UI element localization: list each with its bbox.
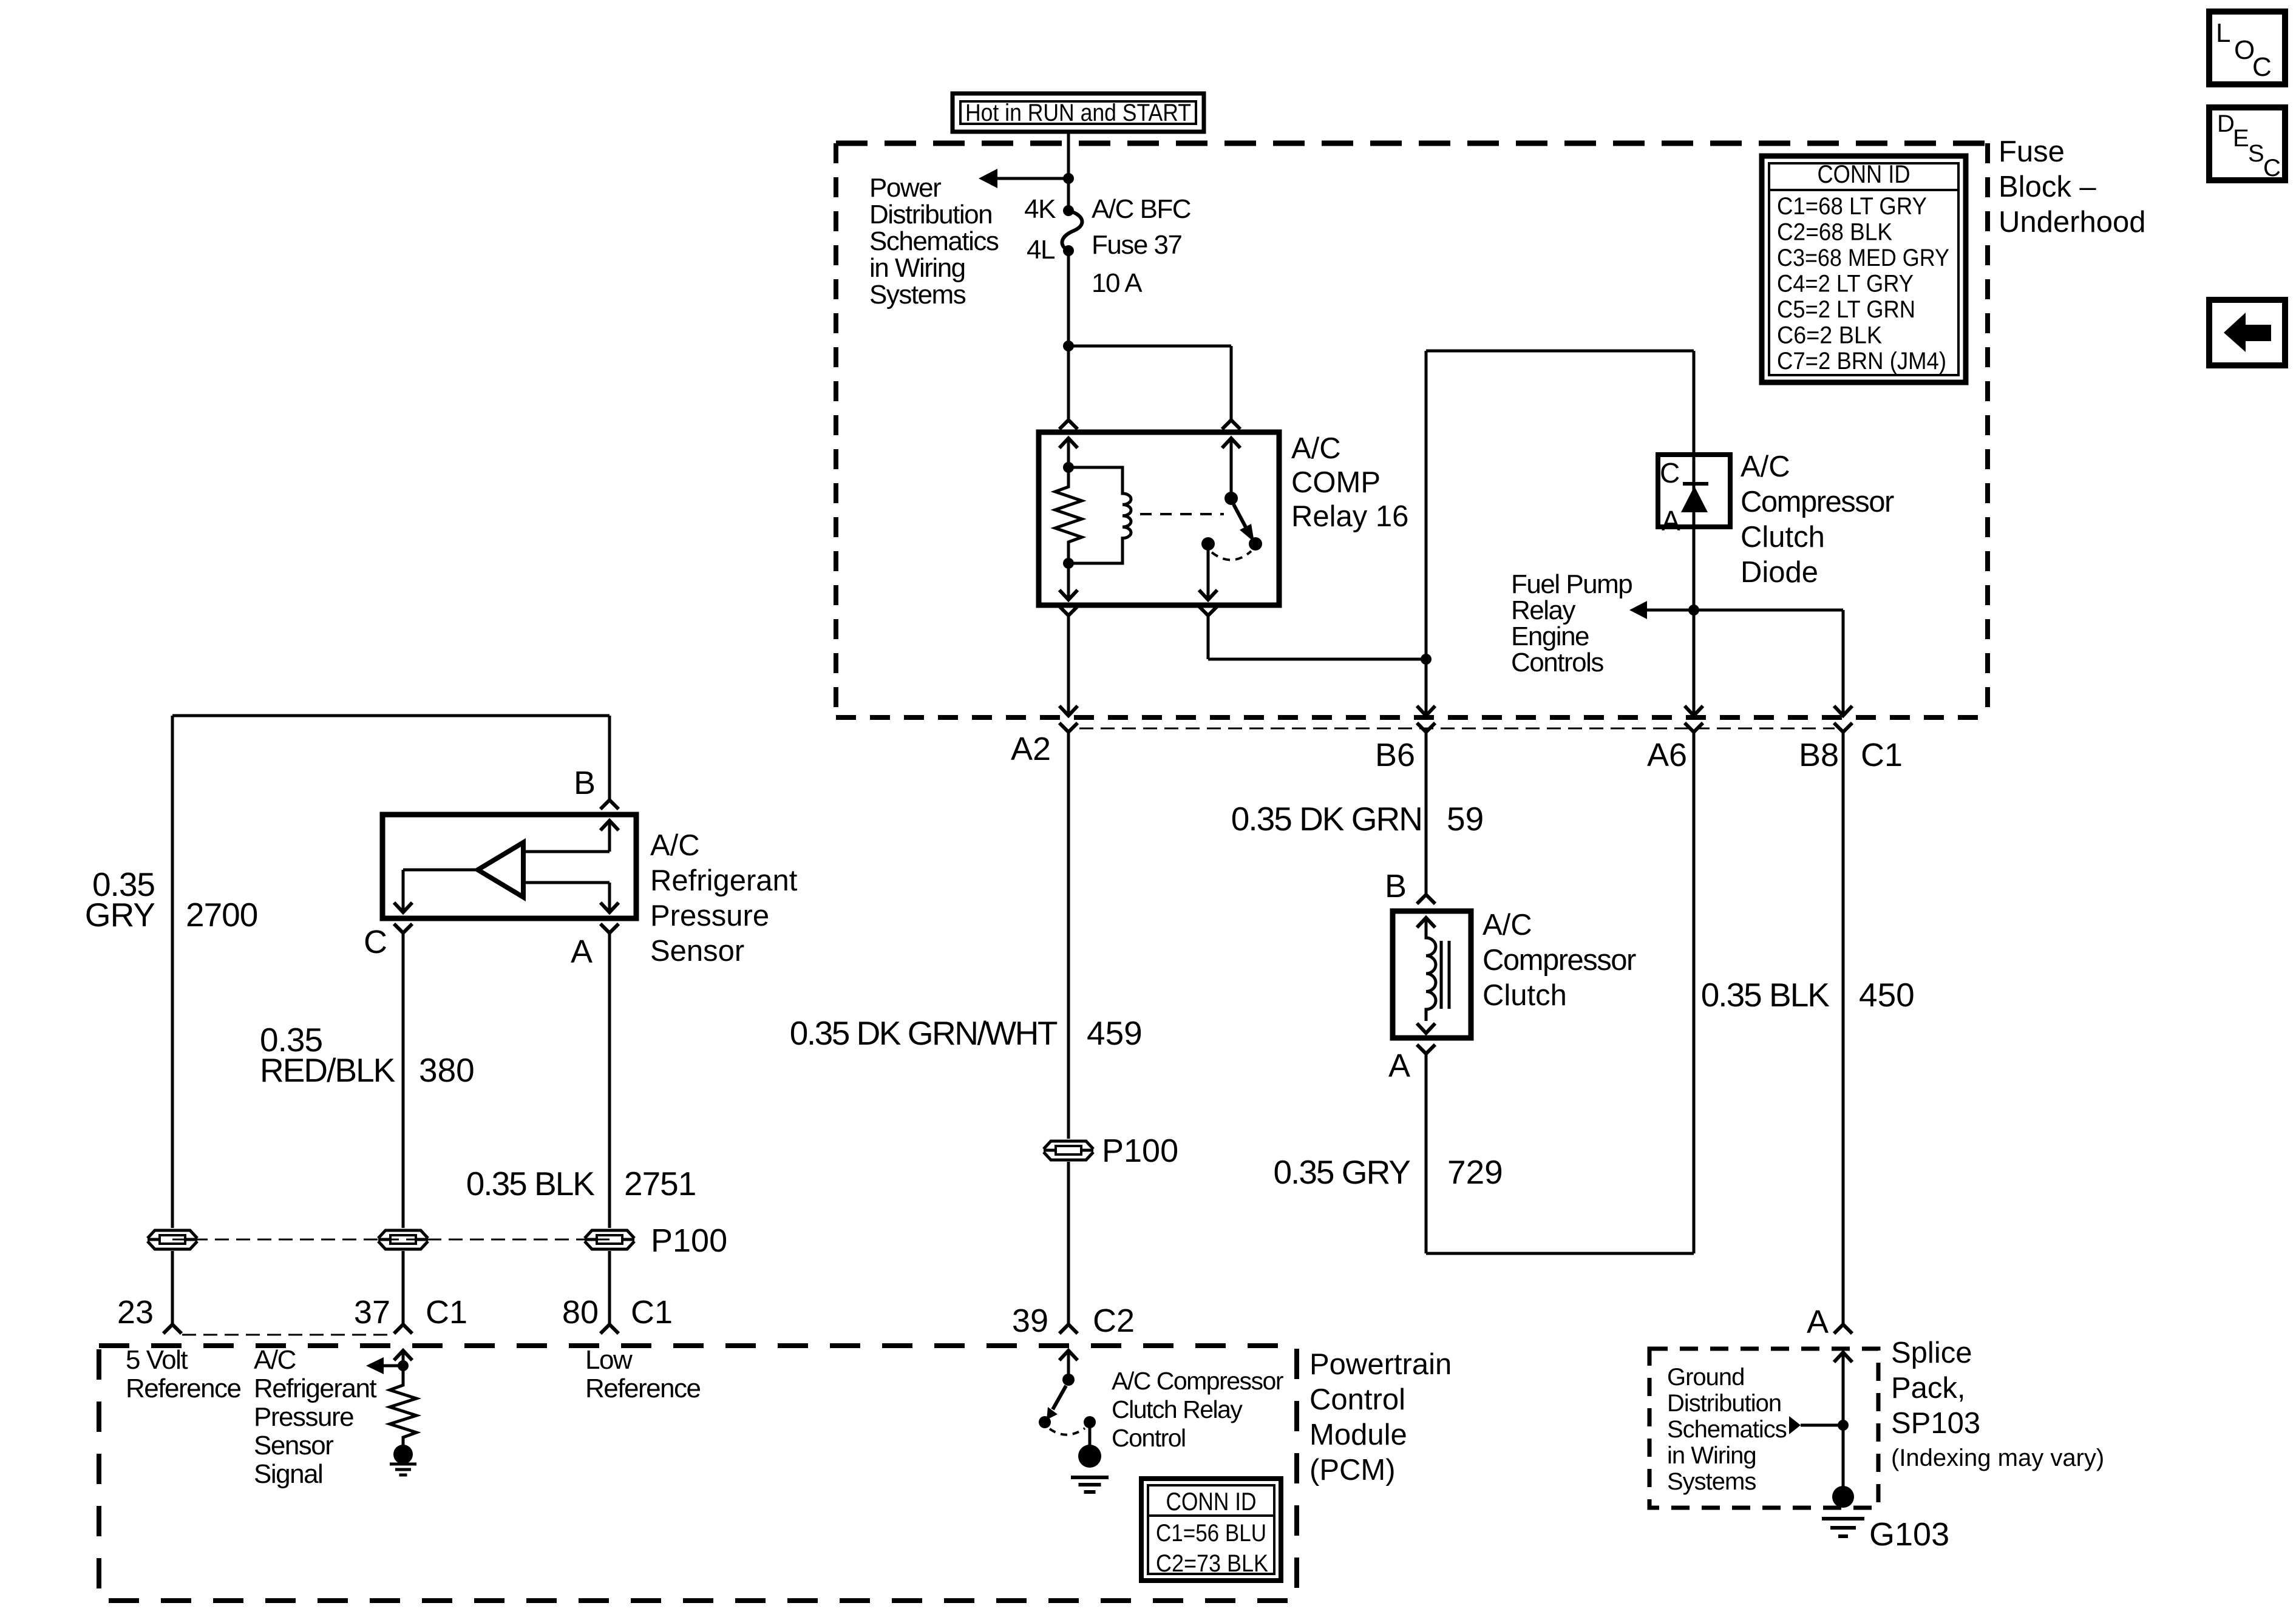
svg-text:0.35 DK GRN: 0.35 DK GRN xyxy=(1231,800,1422,838)
svg-text:C3=68 MED GRY: C3=68 MED GRY xyxy=(1777,245,1949,271)
svg-text:Relay 16: Relay 16 xyxy=(1291,500,1408,533)
svg-text:380: 380 xyxy=(419,1051,475,1089)
svg-text:A/C: A/C xyxy=(1483,909,1532,941)
splice pack entry arrow xyxy=(1834,1352,1852,1362)
wire junction to fuse xyxy=(1067,178,1070,211)
connector chevrons at relay top xyxy=(1059,420,1078,429)
svg-text:Pressure: Pressure xyxy=(254,1402,353,1432)
sensor B pin arrow xyxy=(600,821,619,830)
connector P100 (sensor signal) xyxy=(378,1230,428,1249)
svg-text:C2=73 BLK: C2=73 BLK xyxy=(1156,1550,1268,1577)
connector chevrons at relay bottom xyxy=(1059,606,1078,615)
svg-text:D: D xyxy=(2217,110,2235,137)
wire 5V reference top run xyxy=(172,714,610,717)
svg-text:A/C Compressor: A/C Compressor xyxy=(1112,1367,1283,1395)
svg-text:5 Volt: 5 Volt xyxy=(126,1345,188,1375)
node sensor signal junction xyxy=(398,1360,409,1371)
svg-text:C1=56 BLU: C1=56 BLU xyxy=(1156,1520,1266,1547)
wire to G103 xyxy=(1842,1425,1845,1488)
svg-text:A/C: A/C xyxy=(1741,450,1790,483)
svg-text:S: S xyxy=(2248,140,2264,167)
wire 729 GRY xyxy=(1425,1054,1428,1253)
relay switch pivot xyxy=(1224,492,1238,505)
svg-text:G103: G103 xyxy=(1869,1516,1949,1553)
svg-text:Reference: Reference xyxy=(585,1374,701,1403)
svg-text:Sensor: Sensor xyxy=(650,935,744,968)
svg-text:RED/BLK: RED/BLK xyxy=(260,1051,396,1089)
wire sensor B xyxy=(608,716,611,800)
svg-text:C: C xyxy=(2263,155,2281,181)
svg-text:2751: 2751 xyxy=(624,1165,696,1202)
svg-text:A: A xyxy=(1388,1048,1410,1084)
wire to Power Distribution arrow xyxy=(996,177,1068,180)
wire diode to fuel pump junction xyxy=(1693,527,1696,706)
dashed actuation link xyxy=(1140,513,1224,515)
resistor (PCM pulldown) xyxy=(390,1366,416,1445)
svg-text:59: 59 xyxy=(1447,800,1484,838)
svg-text:450: 450 xyxy=(1859,976,1915,1014)
svg-text:C: C xyxy=(2252,52,2271,82)
wire 2751 BLK xyxy=(608,933,611,1228)
amplifier triangle xyxy=(478,842,523,897)
wire B6 down to border xyxy=(1425,659,1428,706)
svg-text:(Indexing may vary): (Indexing may vary) xyxy=(1891,1445,2104,1471)
svg-text:COMP: COMP xyxy=(1291,466,1381,499)
svg-text:Fuse 37: Fuse 37 xyxy=(1092,230,1182,260)
wire A6 down xyxy=(1693,732,1696,1253)
svg-text:C7=2 BRN (JM4): C7=2 BRN (JM4) xyxy=(1777,348,1946,375)
svg-text:23: 23 xyxy=(117,1294,154,1331)
svg-text:Underhood: Underhood xyxy=(1999,206,2145,239)
svg-text:A6: A6 xyxy=(1647,737,1687,773)
wire switch to ground xyxy=(1089,1422,1092,1447)
svg-text:Splice: Splice xyxy=(1891,1337,1972,1369)
svg-text:in Wiring: in Wiring xyxy=(869,253,965,283)
node Hot in RUN and START xyxy=(953,93,1204,132)
sensor internal wires xyxy=(523,850,610,853)
connector P100 (5V ref) xyxy=(148,1230,197,1249)
svg-text:A/C BFC: A/C BFC xyxy=(1092,194,1191,224)
svg-text:CONN ID: CONN ID xyxy=(1818,160,1911,188)
svg-text:Distribution: Distribution xyxy=(869,200,992,229)
svg-text:Schematics: Schematics xyxy=(869,226,999,256)
inductor clutch coil xyxy=(1426,918,1436,1021)
svg-text:Clutch: Clutch xyxy=(1741,521,1825,554)
node B6/diode junction xyxy=(1421,654,1432,665)
svg-text:10 A: 10 A xyxy=(1092,268,1143,298)
wire fuel pump junction to B8 xyxy=(1694,609,1843,612)
svg-text:C6=2 BLK: C6=2 BLK xyxy=(1777,322,1882,349)
wire to Fuel Pump Relay arrow xyxy=(1646,609,1694,612)
svg-text:A/C: A/C xyxy=(650,829,700,862)
svg-text:Compressor: Compressor xyxy=(1741,486,1894,518)
svg-text:729: 729 xyxy=(1447,1153,1503,1191)
svg-text:P100: P100 xyxy=(1102,1133,1178,1169)
clutch coil pin arrow xyxy=(1417,918,1435,927)
svg-text:Control: Control xyxy=(1309,1383,1405,1416)
svg-text:Signal: Signal xyxy=(254,1459,322,1489)
wire 380 RED/BLK xyxy=(402,933,405,1228)
svg-text:O: O xyxy=(2234,35,2254,65)
svg-text:C2=68 BLK: C2=68 BLK xyxy=(1777,219,1892,246)
relay switch NC contact xyxy=(1249,537,1262,551)
ground distribution arrow xyxy=(1789,1416,1801,1434)
svg-text:C: C xyxy=(364,924,387,960)
connector face line (fuse block bottom) xyxy=(1079,728,1835,730)
wire P100 to PCM pin 39 xyxy=(1067,1162,1070,1324)
svg-text:A: A xyxy=(1807,1304,1829,1340)
wire branch to relay switch pin xyxy=(1068,345,1231,348)
dashed contact arc (PCM switch) xyxy=(1050,1428,1085,1435)
svg-text:CONN ID: CONN ID xyxy=(1166,1487,1257,1516)
svg-text:Refrigerant: Refrigerant xyxy=(650,864,798,897)
node relay coil top junction xyxy=(1063,462,1074,473)
wire to relay coil pin xyxy=(1067,346,1070,420)
svg-text:in Wiring: in Wiring xyxy=(1667,1442,1756,1469)
svg-text:Clutch: Clutch xyxy=(1483,979,1567,1012)
svg-text:Module: Module xyxy=(1309,1419,1407,1451)
svg-text:C1: C1 xyxy=(631,1294,673,1331)
resistor (relay coil shunt) xyxy=(1055,467,1082,563)
svg-text:Hot in RUN and START: Hot in RUN and START xyxy=(965,100,1191,126)
svg-text:0.35 BLK: 0.35 BLK xyxy=(1701,976,1830,1014)
icon DESC xyxy=(2209,107,2285,180)
svg-text:Low: Low xyxy=(585,1345,633,1375)
PCM pin 37 entry arrow xyxy=(394,1351,412,1360)
PCM connector face line xyxy=(182,1334,393,1336)
svg-text:Powertrain: Powertrain xyxy=(1309,1348,1452,1381)
svg-text:C1=68 LT GRY: C1=68 LT GRY xyxy=(1777,193,1927,220)
ground distribution dashed box xyxy=(1649,1349,1878,1508)
connector P100 dashed tie line xyxy=(172,1239,610,1241)
switch A/C compressor clutch relay control xyxy=(1062,1374,1075,1386)
svg-text:2700: 2700 xyxy=(186,896,257,934)
connector chevrons below fuse block xyxy=(1059,723,1078,732)
svg-text:Reference: Reference xyxy=(126,1374,241,1403)
ground G103 xyxy=(1832,1486,1854,1508)
relay switch arm xyxy=(1234,504,1248,532)
node SP103 junction xyxy=(1838,1420,1849,1431)
svg-text:4L: 4L xyxy=(1027,235,1055,265)
svg-text:Engine: Engine xyxy=(1511,622,1589,651)
node CONN ID table (fuse block) xyxy=(1762,156,1966,382)
svg-text:39: 39 xyxy=(1012,1303,1048,1339)
svg-text:A/C: A/C xyxy=(1291,432,1341,465)
svg-text:C: C xyxy=(1660,457,1680,489)
svg-text:C5=2 LT GRN: C5=2 LT GRN xyxy=(1777,296,1915,323)
svg-text:0.35 GRY: 0.35 GRY xyxy=(1273,1153,1410,1191)
svg-text:Schematics: Schematics xyxy=(1667,1416,1787,1443)
wire fuse to relay branch junction xyxy=(1067,251,1070,346)
svg-text:Power: Power xyxy=(869,173,941,203)
svg-text:B8: B8 xyxy=(1799,737,1839,773)
svg-text:E: E xyxy=(2233,125,2249,152)
wires P100 to PCM xyxy=(171,1251,174,1324)
svg-text:4K: 4K xyxy=(1024,194,1056,224)
PCM pin 39 entry arrow xyxy=(1059,1351,1078,1360)
svg-text:GRY: GRY xyxy=(85,896,155,934)
relay coil bottom pin arrow xyxy=(1059,590,1078,600)
node relay coil bottom junction xyxy=(1063,558,1074,569)
svg-text:Refrigerant: Refrigerant xyxy=(254,1374,376,1403)
svg-text:Fuel Pump: Fuel Pump xyxy=(1511,569,1632,599)
sensor C pin arrow xyxy=(394,903,412,912)
svg-text:Distribution: Distribution xyxy=(1667,1390,1781,1417)
svg-text:Compressor: Compressor xyxy=(1483,944,1636,977)
svg-text:C1: C1 xyxy=(1861,737,1903,773)
svg-text:0.35 DK GRN/WHT: 0.35 DK GRN/WHT xyxy=(790,1014,1058,1052)
svg-text:B6: B6 xyxy=(1375,737,1415,773)
relay box A/C COMP Relay 16 xyxy=(1039,432,1279,605)
svg-text:Pack,: Pack, xyxy=(1891,1372,1966,1405)
icon back arrow xyxy=(2209,300,2285,365)
PCM dashed border xyxy=(99,1346,1297,1601)
sensor A pin arrow xyxy=(600,903,619,912)
svg-text:Pressure: Pressure xyxy=(650,900,769,932)
svg-text:Ground: Ground xyxy=(1667,1364,1744,1391)
svg-text:Block –: Block – xyxy=(1999,171,2096,203)
svg-text:L: L xyxy=(2216,18,2230,48)
relay switch output pin arrow xyxy=(1199,590,1217,600)
wire 450 BLK xyxy=(1842,732,1845,1324)
svg-text:0.35 BLK: 0.35 BLK xyxy=(466,1165,596,1202)
svg-text:80: 80 xyxy=(562,1294,599,1331)
svg-text:Systems: Systems xyxy=(869,280,966,310)
connector P100 (DK GRN/WHT) xyxy=(1044,1141,1093,1160)
dashed contact arc xyxy=(1212,551,1251,560)
svg-text:Diode: Diode xyxy=(1741,556,1818,589)
relay coil pin arrow xyxy=(1059,438,1078,448)
svg-text:Systems: Systems xyxy=(1667,1468,1756,1495)
wire junction up and over to diode xyxy=(1425,351,1428,659)
svg-text:459: 459 xyxy=(1087,1014,1143,1052)
svg-text:Relay: Relay xyxy=(1511,595,1575,625)
svg-text:A/C: A/C xyxy=(254,1345,296,1375)
wire relay to A2 xyxy=(1067,615,1070,706)
svg-text:C2: C2 xyxy=(1093,1303,1135,1339)
wire relay switch output to B6 branch xyxy=(1207,615,1210,659)
clutch core bars xyxy=(1440,941,1443,1009)
svg-text:Clutch Relay: Clutch Relay xyxy=(1112,1395,1243,1423)
clutch coil bottom arrow xyxy=(1417,1023,1435,1033)
node CONN ID table (PCM) xyxy=(1141,1479,1281,1581)
fuse A/C BFC Fuse 37 10A xyxy=(1063,205,1074,216)
svg-text:(PCM): (PCM) xyxy=(1309,1454,1396,1486)
svg-text:B: B xyxy=(574,765,596,801)
relay switch pin arrow xyxy=(1222,438,1240,448)
svg-text:A: A xyxy=(1662,505,1680,537)
svg-text:C4=2 LT GRY: C4=2 LT GRY xyxy=(1777,271,1914,297)
svg-text:A: A xyxy=(571,934,593,970)
svg-text:P100: P100 xyxy=(651,1222,727,1259)
connector P100 (low ref) xyxy=(585,1230,634,1249)
svg-text:B: B xyxy=(1385,868,1407,904)
ground (PCM internal) xyxy=(393,1445,413,1464)
node fuel pump branch junction xyxy=(1688,605,1699,615)
node power distribution junction xyxy=(1063,173,1074,184)
fuse block underhood dashed border xyxy=(836,141,1988,146)
svg-text:Controls: Controls xyxy=(1511,648,1603,677)
svg-text:SP103: SP103 xyxy=(1891,1407,1980,1440)
wire 459 DK GRN/WHT xyxy=(1067,732,1070,1139)
diode A/C Compressor Clutch Diode xyxy=(1658,455,1730,527)
relay switch common contact xyxy=(1201,537,1215,551)
wire from Hot box to junction xyxy=(1067,132,1070,178)
svg-text:37: 37 xyxy=(354,1294,390,1331)
wire 59 DK GRN xyxy=(1425,732,1428,895)
ground (clutch relay control driver) xyxy=(1078,1445,1101,1468)
node relay feed junction xyxy=(1063,341,1074,351)
svg-text:Fuse: Fuse xyxy=(1999,135,2065,168)
svg-text:Sensor: Sensor xyxy=(254,1431,333,1460)
sensor signal tap arrow xyxy=(384,1364,403,1368)
svg-text:Control: Control xyxy=(1112,1424,1186,1452)
icon LOC xyxy=(2209,12,2285,84)
svg-text:A2: A2 xyxy=(1011,731,1051,767)
sensor box A/C Refrigerant Pressure Sensor xyxy=(382,815,636,918)
svg-text:C1: C1 xyxy=(426,1294,467,1331)
A/C compressor clutch box xyxy=(1393,911,1471,1038)
inductor relay coil xyxy=(1068,467,1131,563)
